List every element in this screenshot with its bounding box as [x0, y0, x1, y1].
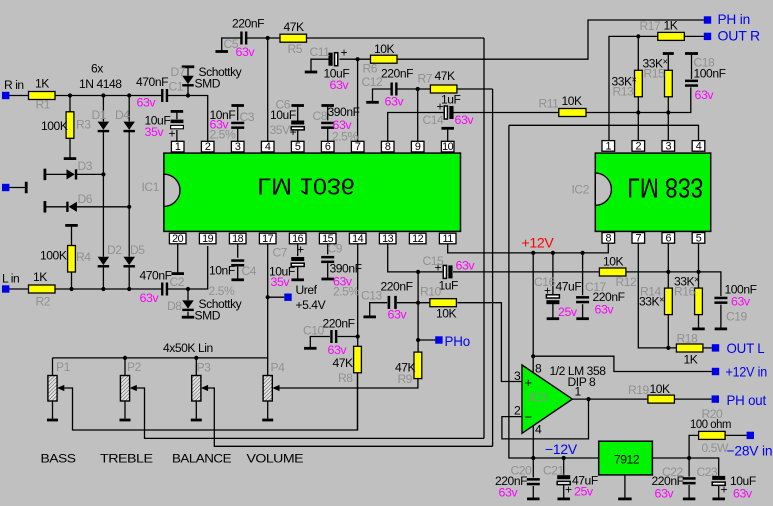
- junction P2 top: [123, 356, 127, 360]
- svg-text:R1: R1: [36, 98, 51, 112]
- capacitor C16 47uF: [546, 295, 559, 304]
- svg-text:Uref: Uref: [296, 283, 318, 297]
- wire: R9 bottom to volume wiper line: [280, 378, 418, 388]
- IC1 pin 6: [321, 141, 334, 153]
- wire: C22 stub: [688, 458, 690, 477]
- svg-text:63v: 63v: [210, 118, 230, 132]
- capacitor C8 390nF: [321, 122, 334, 129]
- svg-text:D5: D5: [130, 243, 145, 257]
- wire: 7912 ground pin: [624, 475, 626, 498]
- wire: R3 stub from R input bus: [69, 96, 71, 112]
- wire: C9 stubs: [327, 244, 329, 279]
- svg-text:+: +: [297, 243, 304, 257]
- ground C21: [557, 497, 570, 500]
- ground C13: [363, 315, 376, 318]
- svg-text:63v: 63v: [236, 45, 256, 59]
- capacitor C17 220nF: [576, 296, 589, 303]
- svg-text:C10: C10: [303, 324, 325, 338]
- IC1 pin 11: [439, 233, 456, 245]
- wire: C21 stub: [563, 458, 565, 475]
- node L in: [2, 285, 9, 292]
- svg-text:63v: 63v: [330, 78, 350, 92]
- terminal above C18: [685, 52, 698, 55]
- wire: C16 bottom stub: [552, 304, 554, 318]
- svg-text:12: 12: [412, 233, 424, 245]
- junction D5: [127, 287, 131, 291]
- wire: pin14 down to C10/R8 junction: [357, 244, 359, 346]
- svg-text:C14: C14: [423, 113, 445, 127]
- wire: R4 top terminal stub: [71, 226, 73, 246]
- resistor R16: [695, 288, 703, 315]
- svg-text:1K: 1K: [33, 270, 47, 284]
- IC1 pin 8: [381, 141, 394, 153]
- svg-text:390nF: 390nF: [330, 262, 362, 276]
- diode D5 1N4148: [123, 257, 135, 268]
- wire: C16 drop: [552, 253, 554, 294]
- ground P1: [47, 419, 58, 422]
- svg-text:OUT L: OUT L: [727, 340, 765, 356]
- terminal above R15: [663, 52, 674, 55]
- capacitor C21 47uF: [557, 475, 570, 484]
- svg-text:10: 10: [442, 141, 454, 153]
- junction D1: [101, 93, 105, 97]
- svg-text:10K: 10K: [374, 42, 395, 56]
- svg-text:2: 2: [635, 140, 641, 152]
- ground C23: [712, 497, 725, 500]
- junction C5/R5/pin4: [266, 36, 270, 40]
- terminal above R4: [65, 224, 78, 227]
- potentiometer P2 treble: [120, 376, 136, 402]
- IC1 pin 3: [231, 141, 244, 153]
- svg-text:4: 4: [535, 423, 542, 437]
- svg-text:17: 17: [262, 233, 274, 245]
- wire: pin20 stub to terminal: [177, 244, 179, 273]
- svg-text:C13: C13: [361, 289, 383, 303]
- svg-text:8: 8: [385, 141, 391, 153]
- wire: treble wiper to bus A: [137, 388, 484, 438]
- resistor R5: [280, 34, 307, 42]
- svg-text:C1: C1: [169, 80, 184, 94]
- wire: C15 branch down to C13/R10 line: [417, 272, 419, 303]
- wire: PHo node stub: [418, 339, 435, 341]
- IC2 pin 8: [602, 232, 615, 244]
- wire: R12/C17 drop: [582, 253, 584, 295]
- svg-text:PH out: PH out: [727, 392, 767, 408]
- node PHo: [435, 336, 442, 343]
- svg-text:PHo: PHo: [445, 333, 471, 349]
- svg-text:R12: R12: [616, 275, 638, 289]
- wire: R17 left to corner down to pin 1 IC2: [609, 36, 658, 140]
- capacitor C2 470nF: [161, 283, 168, 296]
- wire: C5 right to R5 and pin4 junction: [247, 37, 280, 39]
- IC2 pin 7: [632, 232, 645, 244]
- capacitor C15 1uF: [443, 265, 452, 278]
- wire: R19 to PH out node: [674, 398, 711, 400]
- svg-text:220nF: 220nF: [381, 67, 413, 81]
- wire: R7 right to vertical bus B: [457, 88, 493, 90]
- junction +12V C16: [551, 251, 555, 255]
- IC LM833 body IC2: [595, 153, 710, 231]
- svg-text:63v: 63v: [655, 487, 675, 501]
- diode D3 1N4148: [67, 169, 78, 179]
- ground P4: [262, 419, 273, 422]
- terminal above pin10: [441, 127, 454, 130]
- junction Uref: [266, 295, 270, 299]
- resistor R9: [414, 352, 422, 379]
- svg-text:14: 14: [352, 233, 364, 245]
- svg-text:63v: 63v: [499, 486, 519, 500]
- junction pin5/R16: [696, 270, 700, 274]
- junction R17/R13: [636, 34, 640, 38]
- wire: C12 right to R7: [397, 88, 430, 90]
- wire: C6 stubs: [297, 106, 299, 141]
- wire: P4 bottom stub: [267, 401, 269, 419]
- svg-text:1uF: 1uF: [441, 93, 461, 107]
- wire: pot tops bus: [53, 358, 268, 376]
- wire: C21 ground stub: [563, 485, 565, 498]
- svg-text:C2: C2: [170, 275, 185, 289]
- ground P2: [120, 419, 131, 422]
- wire: C19 bottom stub: [720, 305, 722, 328]
- svg-text:+: +: [721, 483, 728, 497]
- diode D2 1N4148: [98, 257, 110, 268]
- node mid input: [2, 184, 9, 191]
- wire: R-in to R1: [9, 95, 29, 97]
- ground C11: [305, 71, 318, 74]
- wire: R13 bottom stub to pin 2 IC2: [637, 97, 639, 141]
- svg-text:C17: C17: [585, 280, 607, 294]
- node Uref: [284, 294, 291, 301]
- diode D1 1N4148: [98, 122, 110, 133]
- node OUT L: [712, 344, 719, 351]
- wire: bass wiper to R8 bottom: [64, 373, 357, 430]
- svg-text:100K: 100K: [40, 249, 67, 263]
- terminal below D8: [182, 316, 195, 319]
- ground 7912: [618, 497, 632, 500]
- capacitor C4 10nF: [231, 259, 244, 266]
- wire: R1 right to C1 left (R input bus): [55, 95, 162, 97]
- junction R15 bottom: [666, 110, 670, 114]
- svg-text:4x50K Lin: 4x50K Lin: [163, 341, 213, 355]
- svg-text:R4: R4: [76, 250, 91, 264]
- capacitor C5 220nF: [240, 32, 247, 45]
- terminal above pin1 cap: [171, 110, 184, 113]
- resistor R20: [699, 431, 726, 439]
- svg-text:+: +: [544, 284, 551, 298]
- IC2 pin 3: [662, 140, 675, 152]
- wire: pin7 down and right to R18: [638, 244, 676, 348]
- wire: pin 7 drop from C11/R6 junction: [357, 59, 359, 141]
- capacitor C9 390nF: [321, 256, 334, 263]
- wire: R15 top terminal stub: [667, 55, 669, 71]
- svg-text:C4: C4: [242, 264, 257, 278]
- svg-text:47K: 47K: [333, 356, 354, 370]
- junction D3: [101, 172, 105, 176]
- diode D4 1N4148: [123, 122, 135, 133]
- wire: R4 bottom to L input bus: [71, 272, 73, 289]
- terminal D6 left: [44, 201, 47, 213]
- terminal above C6: [291, 104, 304, 107]
- wire: D1-D2 vertical chain: [102, 96, 104, 290]
- svg-text:LM 1036: LM 1036: [257, 174, 355, 200]
- wire: IC2 pin4 negative rail: [509, 125, 699, 141]
- wire: R5 right long run to vertical bus A: [307, 37, 484, 39]
- svg-text:TREBLE: TREBLE: [100, 451, 153, 465]
- svg-text:3: 3: [514, 369, 521, 383]
- svg-text:C18: C18: [694, 56, 716, 70]
- terminal below C9: [321, 278, 334, 281]
- svg-text:390nF: 390nF: [328, 105, 360, 119]
- wire: op-amp pin4 drop to -12V: [532, 425, 534, 458]
- ground C5: [215, 50, 228, 53]
- wire: pin13 stub to C15: [388, 244, 443, 272]
- wire: pin 8 stub up and right to C14: [388, 113, 444, 142]
- svg-text:+: +: [169, 127, 176, 141]
- wire: 7912 input side to C23 corner: [652, 458, 718, 476]
- svg-text:13: 13: [382, 233, 394, 245]
- resistor R19: [648, 395, 675, 403]
- wire: C22 ground stub: [688, 485, 690, 498]
- IC1 pin 2: [201, 141, 214, 153]
- IC2 pin 5: [692, 232, 705, 244]
- terminal below C4: [231, 278, 244, 281]
- wire: C12 ground stub: [373, 89, 391, 102]
- svg-text:R in: R in: [4, 78, 24, 92]
- svg-text:+: +: [565, 483, 572, 497]
- svg-text:4: 4: [696, 140, 702, 152]
- wire: C14 right to R11: [453, 112, 558, 114]
- junction D4: [127, 93, 131, 97]
- junction R1/R3: [68, 93, 72, 97]
- svg-text:D2: D2: [107, 243, 122, 257]
- potentiometer P4 volume: [263, 376, 279, 402]
- svg-text:+5.4V: +5.4V: [296, 298, 327, 312]
- svg-text:R18: R18: [677, 332, 699, 346]
- wire: C7 stubs: [297, 244, 299, 280]
- svg-text:63v: 63v: [455, 113, 475, 127]
- junction pin6/R14: [666, 270, 670, 274]
- wire: C3 stubs: [237, 106, 239, 141]
- resistor R2: [29, 285, 56, 293]
- resistor R8: [354, 346, 362, 373]
- resistor R11: [559, 109, 586, 117]
- junction -12V pin4/C20: [531, 456, 535, 460]
- svg-text:35v: 35v: [271, 275, 291, 289]
- svg-text:63v: 63v: [731, 295, 751, 309]
- svg-text:C23: C23: [697, 465, 719, 479]
- svg-text:1: 1: [605, 140, 611, 152]
- terminal below C7: [291, 278, 304, 281]
- resistor R18: [676, 344, 703, 352]
- svg-text:1: 1: [575, 385, 582, 399]
- wire: P1 bottom stub: [52, 401, 54, 419]
- op-amp U IC3 1/2 LM358 triangle: [522, 365, 572, 433]
- capacitor C10 220nF: [330, 330, 337, 343]
- wire: D7 stub above C1 junction: [187, 68, 189, 96]
- wire: R20 left leg: [689, 435, 699, 458]
- svg-text:1: 1: [175, 141, 181, 153]
- svg-text:R11: R11: [539, 97, 560, 111]
- svg-text:C22: C22: [662, 465, 684, 479]
- svg-text:47K: 47K: [284, 20, 305, 34]
- junction C10/pin14: [356, 334, 360, 338]
- svg-text:C7: C7: [273, 246, 288, 260]
- ground C12: [366, 101, 379, 104]
- svg-text:D4: D4: [115, 108, 130, 122]
- svg-text:63v: 63v: [733, 487, 753, 501]
- svg-text:R14: R14: [640, 285, 662, 299]
- resistor R17: [658, 32, 685, 40]
- svg-text:P4: P4: [271, 361, 286, 375]
- svg-text:2: 2: [205, 141, 211, 153]
- svg-text:1K: 1K: [664, 19, 678, 33]
- resistor R10: [430, 299, 457, 307]
- svg-text:18: 18: [232, 233, 244, 245]
- resistor R15: [665, 70, 673, 97]
- wire: pin10 terminal stub: [447, 129, 449, 142]
- node PH out: [712, 395, 719, 402]
- capacitor C18 100nF: [685, 80, 698, 87]
- junction C15 branch: [416, 270, 420, 274]
- terminal mid input: [25, 182, 28, 194]
- svg-text:R6: R6: [363, 62, 378, 76]
- svg-text:1K: 1K: [35, 77, 49, 91]
- IC1 pin 16: [289, 233, 306, 245]
- svg-text:6: 6: [665, 232, 671, 244]
- junction P3 top: [194, 356, 198, 360]
- wire: R13 top stub from R17 junction: [637, 36, 639, 70]
- wire: C13 ground stub: [370, 303, 388, 316]
- svg-text:BASS: BASS: [41, 451, 76, 465]
- wire: C1 right to D7 junction to pin 2 of IC1: [167, 96, 208, 142]
- junction +12V opamp: [531, 251, 535, 255]
- regulator 7912 body: [599, 441, 653, 475]
- svg-text:C3: C3: [240, 110, 255, 124]
- wire: mid input ground stub: [9, 187, 25, 189]
- resistor R14: [665, 288, 673, 315]
- svg-text:1K: 1K: [684, 353, 698, 367]
- svg-text:R7: R7: [418, 72, 433, 86]
- wire: C5 ground stub: [222, 38, 241, 51]
- ground C22: [683, 497, 696, 500]
- svg-text:63v: 63v: [456, 259, 476, 273]
- svg-text:3: 3: [235, 141, 241, 153]
- wire: PHo branch down to R9: [417, 303, 419, 352]
- junction opamp output: [586, 397, 590, 401]
- svg-text:IC3: IC3: [529, 391, 547, 405]
- capacitor C11 10uF: [328, 53, 337, 66]
- wire: R18 to OUT L node: [703, 347, 712, 349]
- wire: R10 right to op-amp pin3: [458, 303, 522, 382]
- svg-text:5: 5: [295, 141, 301, 153]
- wire: R16 bottom stub: [698, 315, 700, 328]
- svg-text:R13: R13: [613, 85, 635, 99]
- wire: D8 stub below C2 junction: [187, 289, 189, 316]
- svg-text:C21: C21: [543, 464, 565, 478]
- svg-text:R9: R9: [398, 372, 413, 386]
- wire: R12 right to C19 corner: [626, 272, 721, 296]
- junction +12V R12: [581, 251, 585, 255]
- junction -12V C21: [562, 456, 566, 460]
- wire: D4-D5 vertical chain: [128, 96, 130, 290]
- junction D2: [101, 287, 105, 291]
- svg-text:63v: 63v: [328, 343, 348, 357]
- svg-text:+: +: [525, 375, 533, 390]
- capacitor C3 10nF: [231, 122, 244, 129]
- junction C13/R10/PHo: [416, 301, 420, 305]
- svg-text:4: 4: [265, 141, 271, 153]
- svg-text:8: 8: [605, 232, 611, 244]
- wire: Uref node stub: [268, 296, 285, 298]
- IC1 pin 7: [351, 141, 364, 153]
- svg-text:R15: R15: [644, 67, 666, 81]
- wire: R3 bottom to terminal: [69, 138, 71, 158]
- svg-text:10K: 10K: [436, 307, 457, 321]
- wire: D6 horizontal: [46, 206, 130, 208]
- svg-text:63v: 63v: [595, 303, 615, 317]
- svg-text:SMD: SMD: [195, 77, 221, 91]
- svg-text:IC2: IC2: [572, 183, 590, 197]
- ground C19: [715, 327, 728, 330]
- svg-text:−: −: [525, 410, 533, 425]
- potentiometer P1 bass: [48, 376, 64, 402]
- node -28V in: [747, 432, 754, 439]
- svg-text:63v: 63v: [333, 118, 353, 132]
- ground C10: [304, 347, 317, 350]
- svg-text:OUT R: OUT R: [718, 28, 761, 44]
- svg-text:470nF: 470nF: [136, 75, 168, 89]
- wire: R8 bottom stub: [357, 373, 359, 430]
- wire: C17 bottom stub: [582, 304, 584, 318]
- diode D7 Schottky SMD: [182, 76, 194, 87]
- svg-text:VOLUME: VOLUME: [247, 451, 304, 465]
- svg-text:C8: C8: [313, 109, 328, 123]
- svg-text:25v: 25v: [558, 305, 578, 319]
- junction PHo node: [416, 338, 420, 342]
- svg-text:C19: C19: [726, 310, 748, 324]
- svg-text:25v: 25v: [574, 485, 594, 499]
- capacitor C13 220nF: [388, 296, 397, 309]
- svg-text:R5: R5: [288, 42, 303, 56]
- svg-text:470nF: 470nF: [140, 269, 172, 283]
- resistor R4: [68, 246, 76, 273]
- IC1 pin 19: [199, 233, 216, 245]
- capacitor C6 10uF: [291, 121, 304, 130]
- IC1 pin 17: [259, 233, 276, 245]
- svg-text:3: 3: [665, 140, 671, 152]
- diode D8 Schottky SMD: [182, 300, 194, 311]
- svg-text:6x: 6x: [91, 62, 103, 76]
- svg-text:6: 6: [325, 141, 331, 153]
- wire: +12V rail from IC1 pin11 to IC2 pin8: [448, 244, 609, 253]
- junction R7/pin9: [416, 87, 420, 91]
- IC2 pin 6: [662, 232, 675, 244]
- IC1 pin 12: [409, 233, 426, 245]
- wire: C13 right to R10: [397, 302, 430, 304]
- IC1 pin 14: [349, 233, 366, 245]
- ground C17: [576, 317, 589, 320]
- svg-text:+: +: [435, 261, 442, 275]
- potentiometer P3 balance: [192, 376, 208, 402]
- wire: R2 right to C2 left (L input bus): [55, 288, 162, 290]
- svg-text:11: 11: [442, 233, 453, 245]
- terminal above D7: [182, 65, 195, 68]
- node OUT R: [704, 33, 711, 40]
- svg-text:47K: 47K: [435, 69, 456, 83]
- wire: pin5 to R16: [698, 244, 700, 289]
- capacitor C1 470nF: [161, 89, 168, 102]
- svg-text:19: 19: [202, 233, 214, 245]
